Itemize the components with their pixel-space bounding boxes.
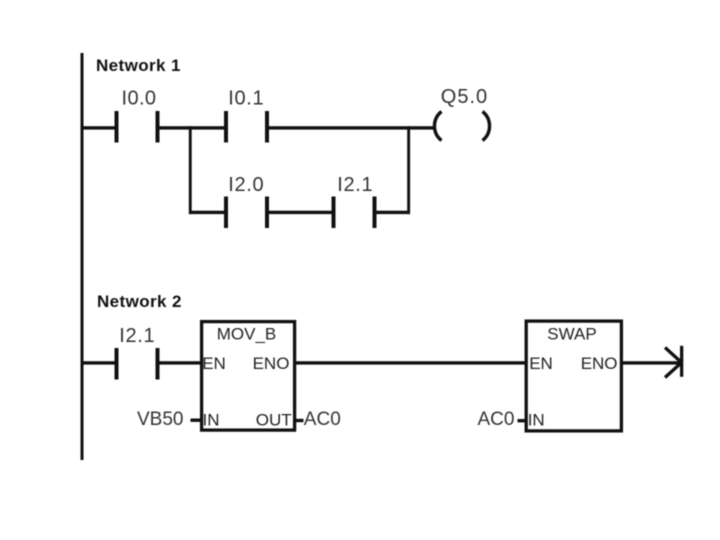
svg-text:Network 1: Network 1 bbox=[96, 56, 181, 75]
branch wire I2.1 to right junction bbox=[377, 211, 411, 214]
contact I2.0 bbox=[224, 197, 269, 229]
tick VB50 to IN bbox=[191, 419, 201, 422]
svg-text:EN: EN bbox=[202, 354, 226, 373]
coil Q5.0 bbox=[434, 112, 489, 141]
wire I0.1 to coil Q5.0 bbox=[269, 126, 434, 129]
svg-text:EN: EN bbox=[529, 354, 553, 373]
svg-text:VB50: VB50 bbox=[137, 409, 183, 430]
continuation arrow bbox=[665, 346, 683, 378]
svg-text:MOV_B: MOV_B bbox=[217, 325, 277, 344]
svg-text:Q5.0: Q5.0 bbox=[441, 86, 488, 108]
wire rail to contact I2.1 net2 bbox=[82, 361, 115, 364]
contact I2.1 bbox=[332, 197, 377, 229]
tick AC0 to IN of SWAP bbox=[518, 419, 526, 422]
branch wire to contact I2.0 bbox=[189, 211, 225, 214]
contact I0.1 bbox=[224, 111, 269, 143]
wire contact to box MOV_B bbox=[160, 361, 202, 364]
svg-text:IN: IN bbox=[528, 410, 545, 429]
wire SWAP to continuation arrow bbox=[623, 361, 680, 364]
wire I0.0 to I0.1 bbox=[160, 126, 225, 129]
svg-text:ENO: ENO bbox=[253, 354, 290, 373]
svg-text:I2.0: I2.0 bbox=[228, 174, 264, 196]
svg-text:AC0: AC0 bbox=[304, 409, 341, 430]
box MOV_B bbox=[202, 322, 295, 431]
svg-text:ENO: ENO bbox=[581, 354, 618, 373]
contact I2.1 net2 bbox=[115, 348, 160, 380]
box SWAP bbox=[526, 321, 621, 431]
left power rail bbox=[81, 53, 84, 460]
svg-text:AC0: AC0 bbox=[478, 409, 515, 430]
svg-text:IN: IN bbox=[203, 410, 220, 429]
svg-text:SWAP: SWAP bbox=[547, 325, 596, 344]
svg-text:I2.1: I2.1 bbox=[337, 174, 373, 196]
contact I0.0 bbox=[115, 111, 160, 143]
tick OUT to AC0 bbox=[296, 419, 304, 422]
svg-text:I2.1: I2.1 bbox=[119, 325, 155, 347]
branch junction vertical right bbox=[407, 126, 410, 214]
wire rail to contact I0.0 bbox=[82, 126, 115, 129]
branch junction vertical left bbox=[189, 126, 192, 214]
branch wire I2.0 to I2.1 bbox=[269, 211, 332, 214]
svg-text:I0.1: I0.1 bbox=[228, 88, 264, 110]
wire ENO to box SWAP bbox=[296, 361, 526, 364]
svg-text:I0.0: I0.0 bbox=[122, 87, 157, 109]
svg-text:OUT: OUT bbox=[256, 410, 292, 429]
svg-text:Network 2: Network 2 bbox=[97, 292, 182, 311]
